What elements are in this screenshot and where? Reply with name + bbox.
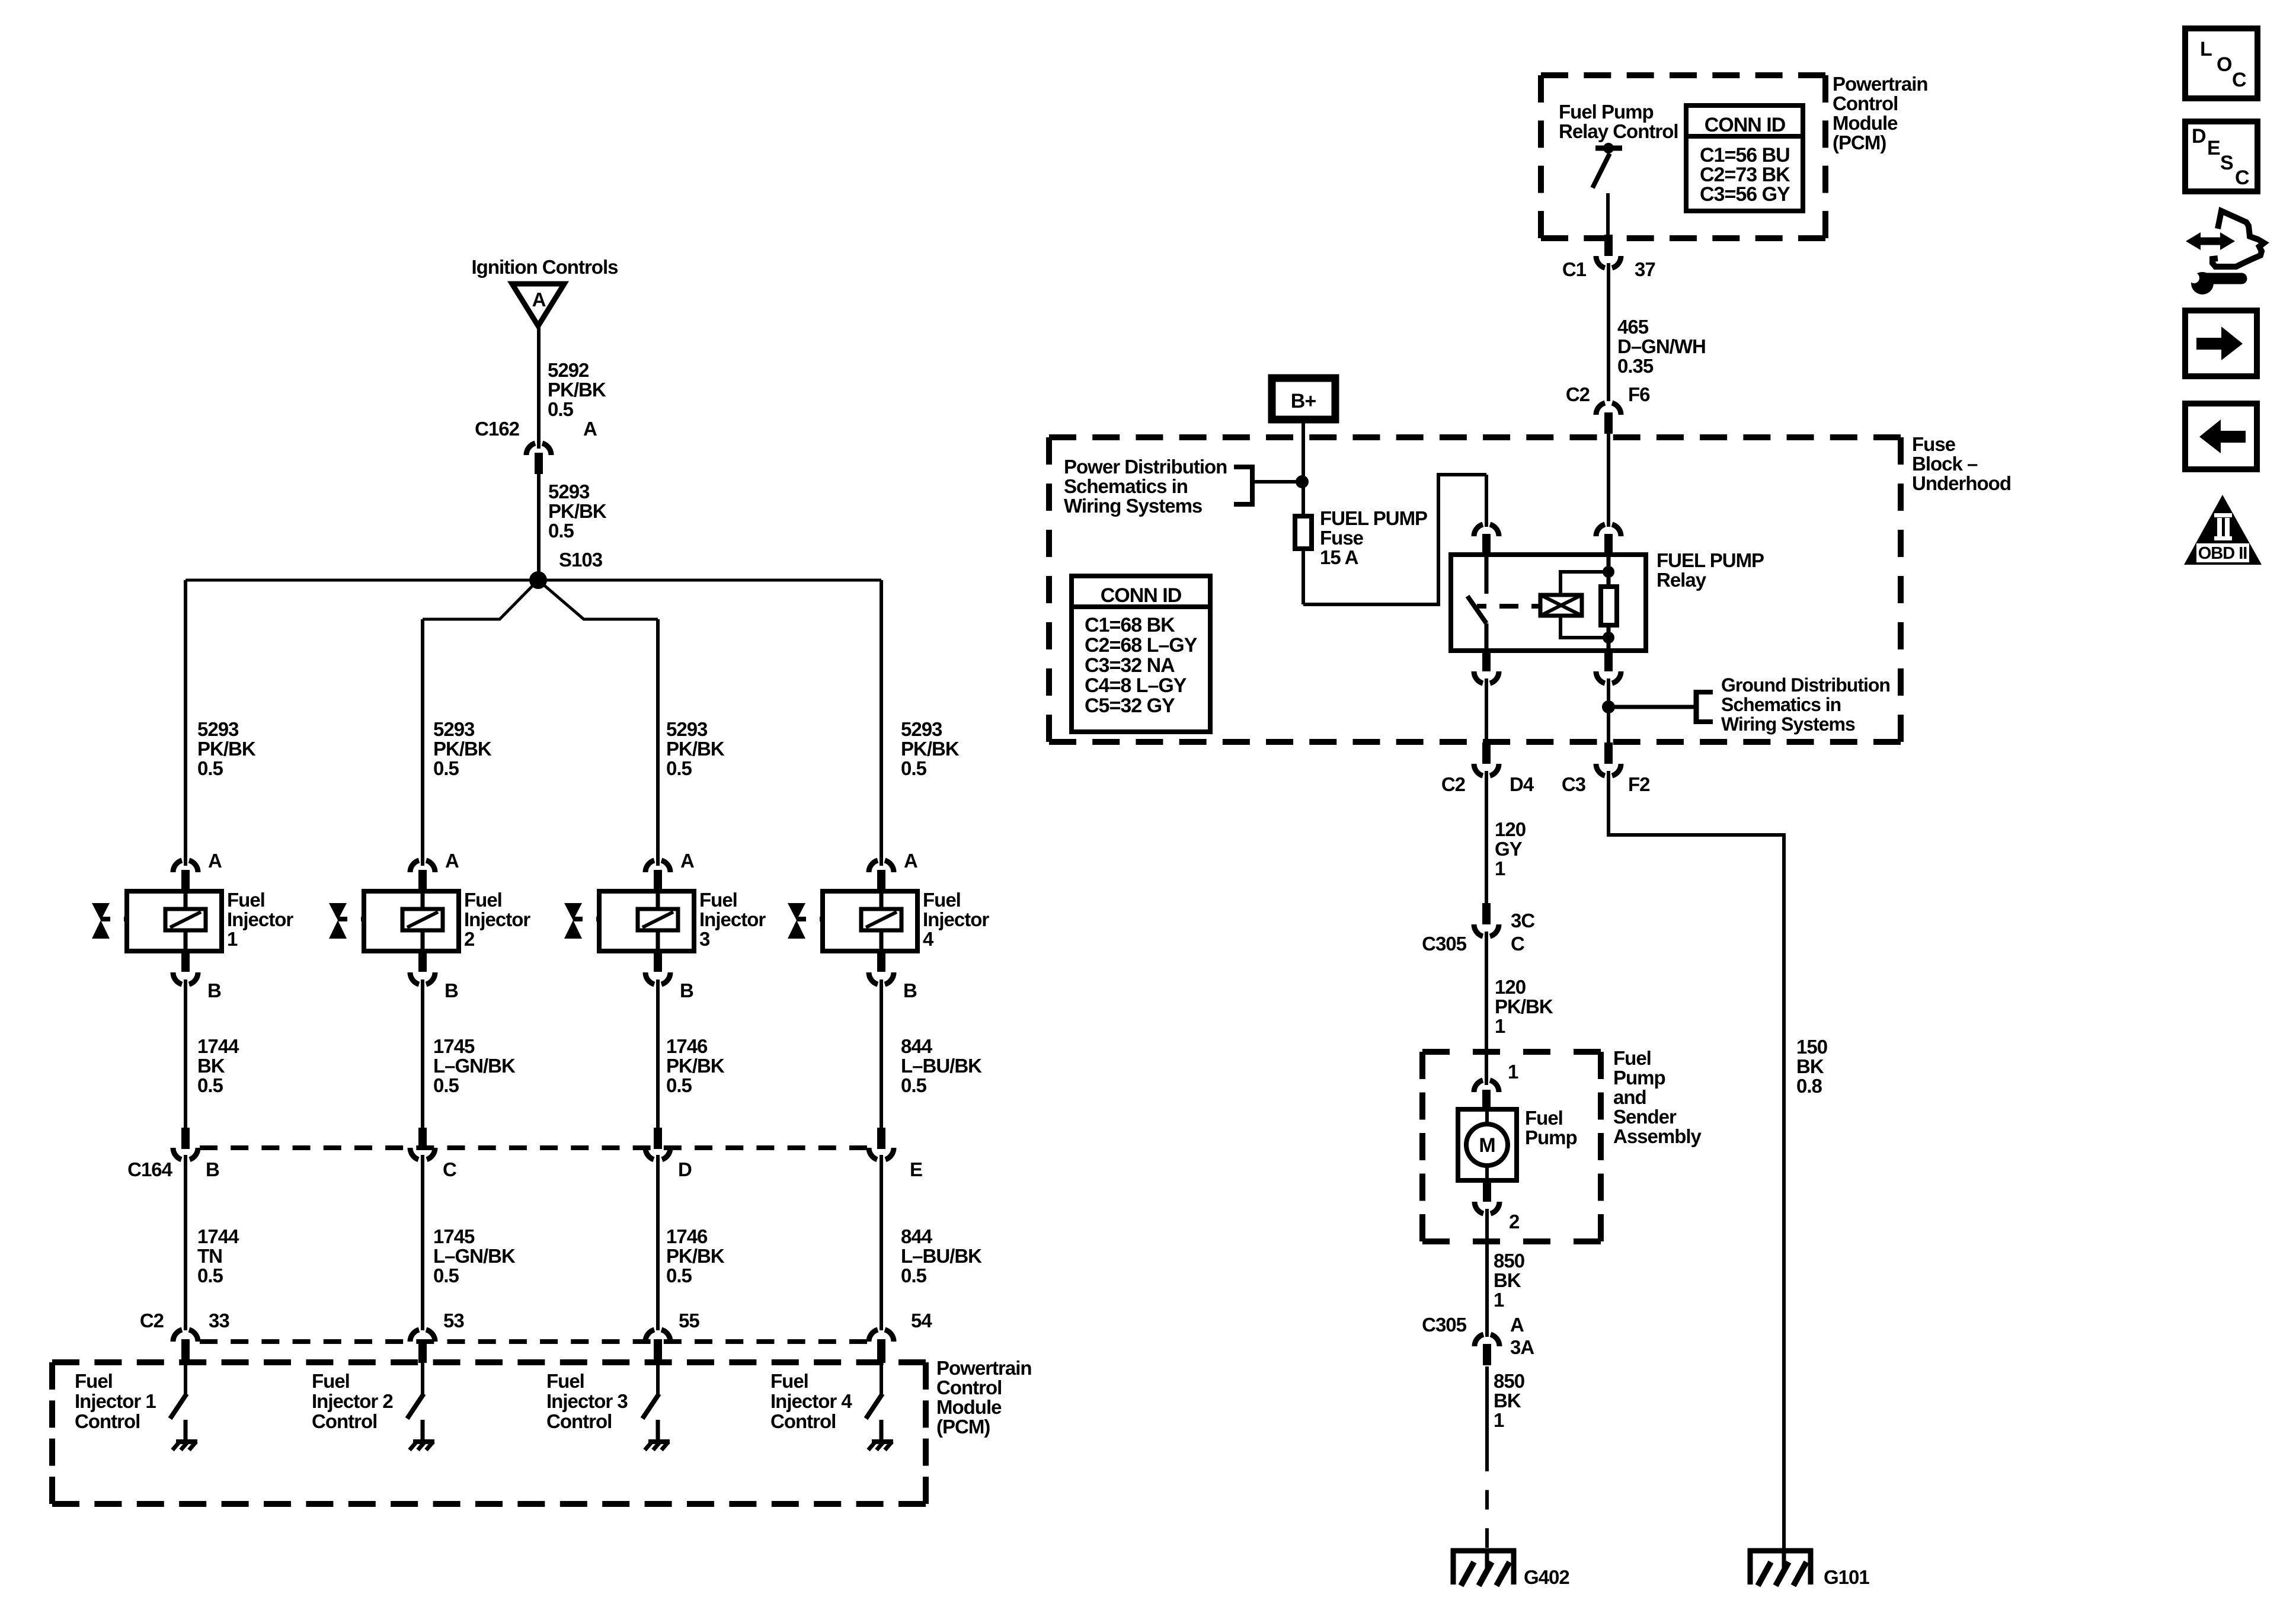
wire label 5293 PK/BK 0.5 (injector 3 branch): [666, 718, 725, 779]
wire label 5292 PK/BK 0.5: [548, 359, 606, 420]
svg-text:C2=68 L–GY: C2=68 L–GY: [1085, 634, 1198, 657]
fuel injector 3 pin B label: [680, 980, 693, 1001]
svg-text:Relay: Relay: [1657, 569, 1707, 591]
wire branch to injector 3: [538, 580, 658, 866]
svg-text:Injector 1: Injector 1: [75, 1390, 156, 1412]
junction dot (ground distribution): [1602, 700, 1615, 713]
svg-text:E: E: [2207, 137, 2220, 159]
svg-text:FUEL PUMP: FUEL PUMP: [1320, 507, 1427, 529]
svg-text:FUEL PUMP: FUEL PUMP: [1657, 549, 1764, 571]
svg-text:PK/BK: PK/BK: [548, 379, 606, 401]
svg-text:850: 850: [1494, 1250, 1524, 1272]
fuel injector 4 pin B label: [903, 980, 917, 1001]
connector C2 F6 (fuse block): [1596, 403, 1621, 434]
fuel injector 2 nozzle symbol: [329, 903, 347, 939]
svg-text:Control: Control: [1833, 92, 1898, 114]
svg-text:3A: 3A: [1510, 1336, 1534, 1358]
bus wire from S103 to injector 1 and 4 branches: [186, 579, 881, 582]
connector C164 pin E: [869, 1128, 894, 1160]
wire branch to injector 4: [880, 580, 883, 866]
svg-text:A: A: [1510, 1314, 1524, 1336]
fuel injector 1 coil: [165, 891, 206, 951]
svg-text:0.5: 0.5: [901, 1265, 927, 1286]
svg-text:Wiring Systems: Wiring Systems: [1721, 713, 1855, 735]
svg-text:Injector 2: Injector 2: [312, 1390, 393, 1412]
svg-text:L–GN/BK: L–GN/BK: [433, 1055, 516, 1077]
svg-text:Control: Control: [936, 1377, 1002, 1398]
fuel injector 4 coil: [861, 891, 901, 951]
svg-text:120: 120: [1495, 976, 1526, 998]
fuel injector 4 dashed link: [820, 917, 861, 921]
svg-text:0.5: 0.5: [901, 1074, 927, 1096]
svg-text:C164: C164: [127, 1158, 173, 1180]
svg-text:Block –: Block –: [1912, 453, 1978, 475]
connector C164 pin C: [410, 1128, 435, 1160]
svg-text:Relay Control: Relay Control: [1559, 120, 1678, 142]
svg-text:Fuel: Fuel: [1525, 1107, 1563, 1129]
fuel injector 4 box: [823, 891, 917, 951]
wire C164 to PCM connector C2 (injector 3): [656, 1155, 660, 1330]
wire C1 to C2/F6: [1607, 263, 1610, 401]
svg-text:A: A: [583, 418, 597, 440]
connector C2 pin F6 label: [1628, 383, 1650, 405]
svg-text:PK/BK: PK/BK: [666, 738, 725, 760]
PCM connector C2 dashed pin line: [200, 1339, 867, 1344]
wire label 1744 TN 0.5: [197, 1225, 239, 1286]
fuel injector 3 nozzle symbol: [564, 903, 583, 939]
connector C1 label: [1562, 258, 1587, 280]
power distribution label: [1064, 456, 1227, 517]
fuel injector 2 pin A connector: [410, 860, 435, 891]
connector C2 D4: [1474, 742, 1499, 776]
fuel injector 4 nozzle symbol: [788, 903, 806, 939]
fuel injector 4 pin A label: [904, 850, 917, 872]
connector C305 cavity 3A label: [1510, 1336, 1534, 1358]
schematics icon (wrench): [2189, 272, 2241, 295]
relay coil wiring: [1560, 572, 1609, 638]
svg-text:3C: 3C: [1511, 910, 1534, 932]
wire label 850 BK 1 (lower): [1494, 1370, 1524, 1431]
fuel pump motor M: [1466, 1109, 1508, 1180]
svg-text:CONN ID: CONN ID: [1101, 584, 1182, 607]
PCM connector C2 pin 55 label: [679, 1310, 699, 1331]
svg-text:B: B: [680, 980, 693, 1001]
splice S103 junction dot: [529, 571, 547, 589]
svg-text:C3=32 NA: C3=32 NA: [1085, 654, 1175, 677]
svg-text:L–BU/BK: L–BU/BK: [901, 1245, 982, 1267]
fuel pump pin 1 label: [1508, 1061, 1518, 1083]
svg-text:BK: BK: [197, 1055, 225, 1077]
ground G101: [1748, 1548, 1813, 1586]
connector C164 label: [127, 1158, 173, 1180]
svg-text:Schematics in: Schematics in: [1064, 475, 1188, 497]
connector C3 label: [1562, 773, 1586, 795]
svg-text:Fuse: Fuse: [1912, 433, 1956, 455]
PCM connector C2 pin 53 label: [443, 1310, 464, 1331]
wire label 844 L–BU/BK 0.5: [901, 1225, 982, 1286]
svg-text:Fuel: Fuel: [312, 1370, 350, 1392]
wire C2/F6 to relay coil pin: [1607, 433, 1610, 527]
fuel injector 1 control label: [75, 1370, 156, 1432]
svg-text:1745: 1745: [433, 1035, 475, 1057]
wire into PCM (injector 2 control): [421, 1362, 424, 1394]
svg-text:G101: G101: [1824, 1566, 1869, 1588]
svg-text:L–BU/BK: L–BU/BK: [901, 1055, 982, 1077]
svg-text:Injector: Injector: [464, 908, 530, 930]
svg-text:L: L: [2200, 38, 2212, 60]
ground symbol (fuel injector 1 control): [172, 1442, 197, 1450]
fuel injector 3 control lower contact: [656, 1420, 660, 1441]
ground distribution bracket: [1609, 690, 1713, 724]
relay coil pin connector (top right): [1596, 524, 1621, 555]
connector C162 label: [475, 418, 520, 440]
wire label 120 GY 1: [1495, 818, 1526, 879]
svg-text:4: 4: [923, 928, 934, 950]
PCM name label (top right): [1833, 73, 1928, 153]
svg-text:A: A: [445, 850, 459, 872]
relay junction dot lower: [1603, 632, 1614, 644]
svg-text:Fuel: Fuel: [1613, 1047, 1651, 1069]
svg-text:and: and: [1613, 1086, 1646, 1108]
svg-text:0.5: 0.5: [433, 757, 459, 779]
PCM connector C2 pin 55: [645, 1330, 670, 1363]
fuse block dashed box: [1049, 437, 1901, 742]
svg-text:53: 53: [443, 1310, 464, 1331]
svg-text:0.35: 0.35: [1617, 355, 1654, 377]
PCM connector C2 label: [140, 1310, 164, 1331]
svg-text:C162: C162: [475, 418, 520, 440]
svg-text:120: 120: [1495, 818, 1526, 840]
schematics icon (engine outline): [2212, 211, 2264, 267]
wire label 1745 L–GN/BK 0.5: [433, 1035, 516, 1096]
svg-text:C: C: [2232, 69, 2246, 91]
svg-text:5292: 5292: [548, 359, 589, 381]
svg-text:Powertrain: Powertrain: [1833, 73, 1928, 95]
relay internal resistor wire: [1607, 555, 1611, 651]
wire fuel pump pin 2 to C305 pin A: [1485, 1209, 1489, 1337]
svg-text:Fuse: Fuse: [1320, 527, 1364, 549]
svg-text:B: B: [206, 1158, 219, 1180]
svg-text:0.8: 0.8: [1796, 1075, 1822, 1097]
svg-text:BK: BK: [1494, 1390, 1521, 1411]
svg-text:5293: 5293: [548, 481, 590, 502]
svg-text:37: 37: [1635, 258, 1655, 280]
svg-text:C5=32 GY: C5=32 GY: [1085, 694, 1175, 717]
svg-text:S103: S103: [559, 549, 603, 571]
svg-text:2: 2: [1509, 1211, 1520, 1233]
svg-text:Control: Control: [770, 1410, 836, 1432]
fuel injector 2 box: [364, 891, 459, 951]
connector C164 dashed pin line: [200, 1145, 867, 1150]
connector C305 pin C: [1474, 903, 1499, 936]
svg-text:PK/BK: PK/BK: [548, 500, 607, 522]
svg-text:GY: GY: [1495, 838, 1523, 860]
svg-text:1744: 1744: [197, 1035, 239, 1057]
svg-text:844: 844: [901, 1225, 933, 1247]
svg-text:5293: 5293: [433, 718, 475, 740]
fuel pump relay control driver switch: [1593, 143, 1622, 237]
svg-text:D4: D4: [1510, 773, 1534, 795]
DESC icon: [2185, 121, 2257, 191]
svg-text:B+: B+: [1291, 390, 1316, 412]
svg-text:Powertrain: Powertrain: [936, 1357, 1032, 1379]
svg-text:Injector: Injector: [699, 908, 766, 930]
svg-text:A: A: [680, 850, 694, 872]
svg-text:33: 33: [209, 1310, 229, 1331]
wire into PCM (injector 4 control): [880, 1362, 883, 1394]
svg-text:A: A: [208, 850, 222, 872]
svg-text:850: 850: [1494, 1370, 1524, 1392]
svg-text:Injector: Injector: [227, 908, 293, 930]
svg-text:0.5: 0.5: [197, 1265, 223, 1286]
connector C3 pin F2 label: [1628, 773, 1650, 795]
wire from triangle A to C162: [537, 325, 541, 449]
svg-text:Fuel: Fuel: [75, 1370, 113, 1392]
wire relay output to connector C2/D4: [1485, 678, 1488, 744]
fuel injector 1 pin B connector: [173, 950, 198, 984]
svg-text:844: 844: [901, 1035, 933, 1057]
relay switch pin connector (top left): [1474, 524, 1499, 555]
connector C1 (PCM): [1596, 235, 1621, 268]
svg-text:Injector: Injector: [923, 908, 989, 930]
fuel injector 2 dashed link: [361, 917, 402, 921]
fuel injector 4 pin A connector: [869, 860, 894, 891]
connector C305 pin A connector: [1475, 1334, 1499, 1365]
ground G402: [1451, 1548, 1516, 1586]
fuel injector 3 name label: [699, 889, 766, 950]
svg-text:1746: 1746: [666, 1225, 708, 1247]
relay output pin connector (bottom left): [1474, 650, 1499, 683]
wire label 150 BK 0.8: [1796, 1036, 1827, 1097]
LOC icon: [2185, 28, 2257, 98]
fuel injector 1 control lower contact: [184, 1420, 188, 1441]
fuel pump and sender assembly dashed box: [1422, 1052, 1601, 1241]
fuel injector 3 coil: [638, 891, 678, 951]
svg-text:PK/BK: PK/BK: [197, 738, 256, 760]
svg-text:Ignition Controls: Ignition Controls: [472, 256, 618, 278]
fuel injector 2 pin B label: [445, 980, 458, 1001]
fuel injector 1 pin B label: [207, 980, 221, 1001]
svg-text:55: 55: [679, 1310, 699, 1331]
svg-text:D: D: [678, 1158, 692, 1180]
wire C305 to fuel pump pin 1: [1485, 932, 1488, 1085]
connector C3 F2: [1596, 742, 1621, 776]
svg-text:B: B: [445, 980, 458, 1001]
svg-text:OBD II: OBD II: [2198, 544, 2247, 563]
svg-text:Fuel Pump: Fuel Pump: [1559, 101, 1654, 123]
fuel injector 2 control label: [312, 1370, 393, 1432]
svg-text:0.5: 0.5: [901, 757, 927, 779]
svg-text:C305: C305: [1422, 933, 1467, 955]
ground distribution label: [1721, 674, 1890, 735]
fuel injector 1 name label: [227, 889, 293, 950]
svg-text:Pump: Pump: [1525, 1126, 1577, 1148]
svg-text:TN: TN: [197, 1245, 222, 1267]
wire injector 4 pin B to C164: [880, 980, 883, 1130]
svg-text:PK/BK: PK/BK: [1495, 996, 1553, 1017]
svg-text:1746: 1746: [666, 1035, 708, 1057]
wire label 1745 L–GN/BK 0.5: [433, 1225, 516, 1286]
fuel injector 3 dashed link: [596, 917, 638, 921]
splice S103 label: [559, 549, 603, 571]
junction dot (B+ feed): [1296, 475, 1309, 488]
ground symbol (fuel injector 3 control): [645, 1442, 670, 1450]
svg-text:Fuel: Fuel: [923, 889, 961, 911]
svg-text:5293: 5293: [666, 718, 708, 740]
connector C164 pin C label: [443, 1158, 456, 1180]
svg-text:1744: 1744: [197, 1225, 239, 1247]
wire B+ to fuse: [1302, 418, 1305, 516]
connector C162 pin A label: [583, 418, 597, 440]
relay mechanical link dashes: [1499, 604, 1540, 609]
connector C1 pin 37 label: [1635, 258, 1655, 280]
wire label 5293 PK/BK 0.5 (injector 2 branch): [433, 718, 492, 779]
svg-text:Power Distribution: Power Distribution: [1064, 456, 1227, 478]
fuel injector 3 pin A connector: [645, 860, 670, 891]
svg-text:(PCM): (PCM): [936, 1416, 990, 1438]
svg-text:Fuel: Fuel: [546, 1370, 584, 1392]
svg-text:BK: BK: [1796, 1055, 1824, 1077]
svg-text:PK/BK: PK/BK: [666, 1055, 725, 1077]
svg-text:Fuel: Fuel: [770, 1370, 808, 1392]
svg-text:S: S: [2220, 152, 2233, 174]
wire label 1746 PK/BK 0.5: [666, 1225, 725, 1286]
svg-text:1: 1: [1494, 1409, 1504, 1431]
relay resistor: [1601, 587, 1617, 625]
svg-text:Control: Control: [546, 1410, 612, 1432]
PCM connector C2 pin 54: [869, 1330, 894, 1363]
connector C164 pin E label: [910, 1158, 922, 1180]
svg-text:Schematics in: Schematics in: [1721, 694, 1841, 715]
svg-text:1: 1: [1495, 1015, 1505, 1037]
svg-text:C3=56 GY: C3=56 GY: [1700, 183, 1790, 206]
svg-text:0.5: 0.5: [197, 757, 223, 779]
wire C162 to splice S103: [537, 473, 541, 580]
wire relay ground pin down: [1607, 678, 1610, 744]
fuel injector 3 control label: [546, 1370, 628, 1432]
fuel pump relay control label: [1559, 101, 1678, 142]
connector C305 label (upper): [1422, 933, 1467, 955]
fuel injector 4 control switch: [866, 1394, 882, 1419]
PCM dashed box (top right): [1541, 75, 1825, 238]
wire into PCM (injector 1 control): [184, 1362, 187, 1394]
CONN ID table (PCM): [1686, 105, 1803, 211]
svg-text:1: 1: [1508, 1061, 1518, 1083]
svg-text:D–GN/WH: D–GN/WH: [1617, 335, 1706, 357]
svg-text:C2: C2: [140, 1310, 164, 1331]
svg-text:C4=8 L–GY: C4=8 L–GY: [1085, 674, 1187, 697]
svg-text:15 A: 15 A: [1320, 546, 1358, 568]
fuel injector 4 pin B connector: [869, 950, 894, 984]
svg-text:A: A: [904, 850, 917, 872]
svg-text:Injector 4: Injector 4: [770, 1390, 852, 1412]
svg-text:B: B: [207, 980, 221, 1001]
fuel injector 2 control lower contact: [421, 1420, 425, 1441]
svg-text:G402: G402: [1524, 1566, 1569, 1588]
wire label 850 BK 1 (upper): [1494, 1250, 1524, 1311]
wire injector 2 pin B to C164: [421, 980, 424, 1130]
connector C305 pin C label: [1511, 933, 1524, 955]
svg-text:0.5: 0.5: [548, 520, 574, 542]
back arrow icon: [2185, 404, 2257, 469]
connector C164 pin B: [173, 1128, 198, 1160]
fuel injector 1 box: [127, 891, 222, 951]
svg-text:Wiring Systems: Wiring Systems: [1064, 495, 1202, 517]
fuel pump motor box: [1458, 1109, 1517, 1180]
wire label 1746 PK/BK 0.5: [666, 1035, 725, 1096]
PCM connector C2 pin 33: [173, 1330, 198, 1363]
fuel injector 1 dashed link: [124, 917, 165, 921]
fuel pump pin 1 connector: [1474, 1080, 1499, 1111]
off-page triangle A (Ignition Controls): [512, 284, 564, 326]
wire branch to injector 1: [184, 580, 187, 866]
ground G402 label: [1524, 1566, 1569, 1588]
svg-text:Module: Module: [936, 1396, 1002, 1418]
fuel injector 2 name label: [464, 889, 530, 950]
wire C2/D4 to C305: [1485, 771, 1488, 905]
connector C305 pin A label: [1510, 1314, 1524, 1336]
svg-text:C1=68 BK: C1=68 BK: [1085, 614, 1175, 636]
svg-text:1745: 1745: [433, 1225, 475, 1247]
svg-text:C: C: [2235, 167, 2249, 189]
svg-text:Pump: Pump: [1613, 1067, 1665, 1089]
ground symbol (fuel injector 2 control): [410, 1442, 434, 1450]
svg-text:Injector 3: Injector 3: [546, 1390, 628, 1412]
relay switch: [1467, 555, 1486, 651]
fuel pump fuse: [1295, 516, 1312, 549]
fuel injector 2 pin B connector: [410, 950, 435, 984]
off-page reference label Ignition Controls: [472, 256, 618, 278]
wire injector 1 pin B to C164: [184, 980, 187, 1130]
connector C164 pin D label: [678, 1158, 692, 1180]
fuel injector 1 nozzle symbol: [92, 903, 110, 939]
wire C164 to PCM connector C2 (injector 4): [880, 1155, 883, 1330]
svg-text:D: D: [2192, 125, 2206, 148]
svg-text:3: 3: [699, 928, 710, 950]
svg-text:5293: 5293: [197, 718, 239, 740]
svg-text:C: C: [1511, 933, 1524, 955]
svg-text:Sender: Sender: [1613, 1106, 1677, 1128]
power distribution bracket: [1234, 465, 1301, 507]
svg-text:0.5: 0.5: [433, 1265, 459, 1286]
svg-text:F6: F6: [1628, 383, 1650, 405]
svg-text:L–GN/BK: L–GN/BK: [433, 1245, 516, 1267]
fuel injector 4 control lower contact: [880, 1420, 884, 1441]
ground G101 label: [1824, 1566, 1869, 1588]
svg-text:1: 1: [1495, 857, 1505, 879]
fuel pump name label: [1525, 1107, 1577, 1148]
connector C2 label (fuse block): [1566, 383, 1590, 405]
svg-text:F2: F2: [1628, 773, 1650, 795]
connector C305 label (lower): [1422, 1314, 1467, 1336]
PCM connector C2 pin 54 label: [911, 1310, 932, 1331]
relay ground pin connector (bottom right): [1596, 650, 1621, 683]
fuel pump and sender assembly label: [1613, 1047, 1702, 1147]
wire C305 to ground G402: [1485, 1366, 1489, 1548]
PCM dashed box (bottom left): [52, 1362, 926, 1504]
fuel injector 2 control switch: [407, 1394, 424, 1419]
svg-text:Underhood: Underhood: [1912, 472, 2011, 494]
CONN ID table (fuse block): [1072, 576, 1210, 732]
relay coil: [1540, 595, 1582, 616]
svg-text:Ground Distribution: Ground Distribution: [1721, 674, 1890, 696]
wire label 5293 PK/BK 0.5 (injector 1 branch): [197, 718, 256, 779]
fuel pump fuse label: [1320, 507, 1427, 568]
connector C2 label (pump feed): [1441, 773, 1466, 795]
svg-text:CONN ID: CONN ID: [1705, 114, 1786, 136]
svg-text:PK/BK: PK/BK: [901, 738, 960, 760]
fuel injector 3 control switch: [642, 1394, 659, 1419]
